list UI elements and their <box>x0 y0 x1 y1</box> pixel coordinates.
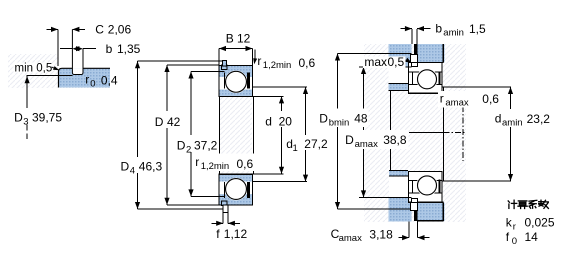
svg-text:1,2min: 1,2min <box>263 60 292 71</box>
svg-text:0,4: 0,4 <box>101 73 118 87</box>
svg-text:amax: amax <box>355 139 378 150</box>
svg-text:0: 0 <box>512 236 517 247</box>
svg-text:D: D <box>155 115 164 129</box>
svg-text:D: D <box>345 133 354 147</box>
svg-text:14: 14 <box>525 230 539 244</box>
svg-text:3,18: 3,18 <box>369 228 393 242</box>
svg-text:k: k <box>506 216 513 230</box>
svg-text:2,06: 2,06 <box>108 22 132 36</box>
svg-text:4: 4 <box>130 166 135 177</box>
svg-text:b: b <box>106 42 113 56</box>
svg-text:amax: amax <box>339 233 362 244</box>
svg-text:1,2min: 1,2min <box>201 161 230 172</box>
svg-text:bmin: bmin <box>329 118 350 129</box>
svg-text:39,75: 39,75 <box>32 111 62 125</box>
svg-text:r: r <box>85 72 89 86</box>
svg-text:38,8: 38,8 <box>383 133 407 147</box>
svg-text:3: 3 <box>23 117 28 128</box>
svg-text:46,3: 46,3 <box>139 160 163 174</box>
svg-text:0,6: 0,6 <box>482 92 499 106</box>
svg-text:D: D <box>121 160 130 174</box>
svg-text:23,2: 23,2 <box>527 112 551 126</box>
svg-text:0,025: 0,025 <box>525 216 555 230</box>
svg-text:C: C <box>95 22 104 36</box>
svg-text:r: r <box>257 54 261 68</box>
svg-text:D: D <box>14 111 23 125</box>
svg-text:0: 0 <box>90 78 95 89</box>
svg-text:r: r <box>440 91 444 105</box>
svg-text:1: 1 <box>293 143 298 154</box>
svg-text:min 0,5: min 0,5 <box>15 62 53 74</box>
svg-text:B: B <box>226 32 234 46</box>
svg-text:d: d <box>495 111 502 125</box>
svg-text:0,5: 0,5 <box>388 55 405 69</box>
svg-text:amax: amax <box>445 97 468 108</box>
svg-text:amin: amin <box>502 117 523 128</box>
svg-text:1,12: 1,12 <box>224 227 248 241</box>
svg-text:b: b <box>435 22 442 36</box>
svg-text:amin: amin <box>443 28 464 39</box>
svg-text:0,6: 0,6 <box>299 56 316 70</box>
svg-text:1,5: 1,5 <box>469 22 486 36</box>
svg-text:max: max <box>364 55 387 69</box>
svg-text:12: 12 <box>237 32 251 46</box>
svg-text:20: 20 <box>279 115 293 129</box>
svg-text:37,2: 37,2 <box>194 139 218 153</box>
svg-text:1,35: 1,35 <box>117 42 141 56</box>
svg-text:0,6: 0,6 <box>237 157 254 171</box>
svg-text:48: 48 <box>354 112 368 126</box>
svg-text:2: 2 <box>186 145 191 156</box>
svg-text:27,2: 27,2 <box>304 137 328 151</box>
svg-text:D: D <box>319 112 328 126</box>
svg-text:42: 42 <box>167 115 181 129</box>
svg-text:D: D <box>177 139 186 153</box>
svg-text:d: d <box>265 115 272 129</box>
svg-text:r: r <box>195 155 199 169</box>
svg-text:r: r <box>513 222 516 233</box>
